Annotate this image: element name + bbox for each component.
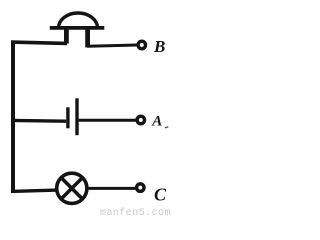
- terminal C: [137, 184, 144, 191]
- lamp L1: cross stroke 2: [61, 178, 82, 199]
- wire: bus to battery: [11, 119, 66, 123]
- wire: bell to terminal B: [87, 45, 137, 46]
- svg-text:C: C: [154, 185, 167, 205]
- stray mark after label A: [165, 127, 169, 128]
- svg-text:manfen5.com: manfen5.com: [100, 207, 171, 218]
- bell U1: dome: [59, 13, 98, 28]
- watermark manfen5.com: [100, 207, 171, 219]
- battery BT1: long plate (positive): [75, 98, 78, 135]
- wire: lamp to terminal C: [88, 187, 137, 190]
- bell U1: right leg: [85, 28, 90, 47]
- bell U1: left leg: [64, 28, 69, 44]
- label A: [151, 114, 162, 130]
- bell U1: base bar: [50, 26, 105, 30]
- label C: [154, 185, 167, 205]
- lamp L1: cross stroke 1: [61, 178, 82, 199]
- terminal B: [138, 41, 145, 48]
- wire: bus to lamp: [11, 190, 57, 191]
- wire: top horizontal (bus to bell left leg): [11, 42, 67, 43]
- wire: left vertical bus: [11, 41, 15, 193]
- battery BT1: short plate (negative): [66, 107, 69, 128]
- lamp L1: bulb circle: [57, 173, 87, 203]
- svg-text:A: A: [151, 114, 162, 130]
- svg-text:B: B: [153, 37, 165, 56]
- terminal A: [137, 116, 144, 123]
- label B: [153, 37, 165, 56]
- wire: battery to terminal A: [79, 119, 136, 122]
